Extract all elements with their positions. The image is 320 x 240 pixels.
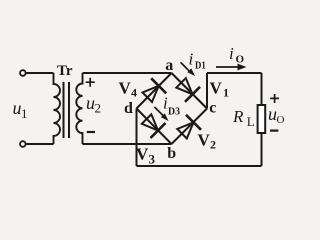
svg-text:V: V: [136, 145, 149, 164]
current arrow iD1: [181, 62, 195, 76]
svg-text:a: a: [165, 57, 173, 74]
svg-text:V: V: [210, 79, 223, 98]
node a: [165, 57, 173, 74]
svg-text:3: 3: [149, 152, 156, 167]
diode V3: [142, 114, 166, 138]
label V2: [198, 131, 217, 152]
node b: [167, 145, 176, 162]
svg-text:D1: D1: [195, 61, 206, 72]
input terminal bottom: [20, 141, 26, 147]
svg-text:1: 1: [21, 106, 28, 121]
wire load bottom: [261, 133, 263, 166]
polarity plus uO: [270, 94, 279, 103]
node c: [209, 99, 216, 116]
svg-text:D3: D3: [168, 106, 180, 117]
transformer core: [64, 82, 70, 138]
polarity minus uO: [270, 130, 278, 132]
polarity minus u2: [87, 131, 95, 133]
node d: [124, 100, 133, 117]
wire node c up: [206, 73, 208, 109]
label RL: [232, 107, 255, 129]
label iO: [229, 44, 245, 66]
svg-text:1: 1: [223, 86, 229, 100]
wire bottom rail: [137, 165, 262, 167]
label u1: [13, 98, 28, 121]
resistor RL: [258, 105, 266, 133]
label V4: [119, 78, 138, 99]
svg-text:2: 2: [210, 138, 216, 152]
svg-text:O: O: [236, 54, 245, 66]
wire bridge arm b-c: [172, 109, 208, 145]
svg-text:O: O: [277, 114, 285, 126]
svg-text:d: d: [124, 100, 133, 117]
polarity plus u2: [86, 78, 95, 87]
wire primary bottom: [26, 143, 54, 145]
label V1: [210, 79, 230, 100]
wire bridge arm a-c: [172, 73, 208, 109]
wire secondary top to node a: [83, 72, 172, 74]
input terminal top: [20, 70, 26, 76]
diode V4: [143, 78, 167, 102]
label iD1: [189, 50, 206, 72]
diode V2: [177, 115, 201, 139]
svg-text:4: 4: [131, 86, 137, 100]
svg-text:2: 2: [95, 101, 102, 116]
transformer T primary winding: [54, 73, 61, 144]
svg-text:V: V: [198, 131, 211, 150]
wire bridge arm d-a: [137, 73, 172, 109]
current arrow iO: [216, 64, 247, 71]
wire node d down: [136, 109, 138, 167]
wire top output: [207, 72, 262, 74]
diode V1: [176, 78, 200, 102]
svg-text:R: R: [232, 107, 244, 126]
svg-text:Tr: Tr: [57, 63, 73, 79]
svg-text:b: b: [167, 145, 176, 162]
label V3: [136, 145, 156, 167]
transformer T secondary winding: [76, 73, 82, 144]
wire secondary bottom to node b: [83, 143, 172, 145]
svg-text:i: i: [229, 44, 234, 63]
label uO: [268, 104, 285, 126]
svg-text:i: i: [189, 50, 194, 69]
svg-text:L: L: [247, 114, 255, 129]
wire bridge arm d-b: [137, 109, 172, 145]
svg-text:c: c: [209, 99, 216, 116]
label u2: [86, 93, 101, 116]
wire primary top: [26, 72, 54, 74]
label Tr: [57, 63, 73, 79]
svg-text:V: V: [119, 78, 132, 97]
label iD3: [163, 93, 180, 117]
current arrow iD3: [155, 107, 169, 121]
wire right down to load: [261, 73, 263, 105]
